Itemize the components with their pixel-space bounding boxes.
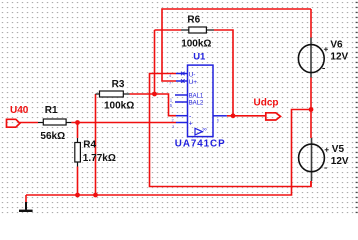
svg-text:Udcp: Udcp: [254, 98, 279, 109]
svg-text:BAL2: BAL2: [189, 101, 204, 107]
svg-text:U1: U1: [193, 52, 206, 63]
svg-text:+: +: [189, 121, 193, 128]
svg-text:V5: V5: [332, 144, 345, 155]
svg-text:UA741CP: UA741CP: [175, 139, 226, 150]
svg-text:1.77kΩ: 1.77kΩ: [83, 153, 116, 164]
svg-text:5: 5: [170, 103, 173, 109]
svg-text:R3: R3: [112, 79, 125, 90]
svg-text:1: 1: [170, 97, 173, 103]
svg-text:100kΩ: 100kΩ: [181, 38, 211, 49]
svg-text:V6: V6: [330, 40, 343, 51]
svg-text:56kΩ: 56kΩ: [40, 131, 65, 142]
svg-text:U-: U-: [189, 71, 196, 78]
svg-text:12V: 12V: [330, 52, 348, 63]
svg-text:BAL1: BAL1: [189, 94, 204, 100]
svg-text:R1: R1: [45, 105, 58, 116]
svg-text:R4: R4: [83, 139, 96, 150]
svg-text:100kΩ: 100kΩ: [104, 100, 134, 111]
svg-text:U+: U+: [189, 79, 198, 86]
svg-text:U40: U40: [10, 105, 29, 116]
svg-text:R6: R6: [187, 14, 200, 25]
svg-text:12V: 12V: [331, 156, 349, 167]
